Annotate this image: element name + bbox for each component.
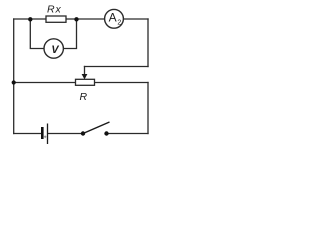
wire: voltmeter branch right	[64, 19, 77, 49]
battery polarity plus mark	[44, 136, 47, 139]
svg-text:2: 2	[117, 19, 121, 26]
wire: middle wire left of rheostat	[14, 82, 76, 84]
wire: bottom wire battery to left rail	[14, 133, 41, 135]
svg-text:R: R	[80, 91, 88, 103]
switch lever	[83, 122, 110, 134]
voltmeter V body	[44, 39, 63, 58]
switch pivot contact dot	[81, 131, 85, 135]
battery positive plate (long thin)	[47, 124, 49, 145]
node: junction dot right of Rx	[74, 17, 78, 21]
ammeter A2 body	[105, 9, 124, 28]
wire: slider riser	[84, 67, 86, 75]
node: junction dot left of Rx	[28, 17, 32, 21]
wire: left rail	[13, 19, 15, 134]
rheostat slider arrowhead	[82, 74, 88, 79]
switch right contact dot	[104, 131, 108, 135]
svg-text:A: A	[109, 10, 117, 24]
wire: bottom wire battery to switch	[48, 133, 83, 135]
wire: bottom wire switch to right rail	[107, 133, 149, 135]
wire: rheostat slider wire	[85, 66, 149, 68]
wire: voltmeter branch left	[30, 19, 44, 49]
wire: right rail lower segment	[147, 83, 149, 134]
wire: middle wire right of rheostat	[95, 82, 149, 84]
resistor Rx body	[46, 16, 66, 22]
svg-text:V: V	[51, 44, 59, 56]
node: junction dot on left rail	[12, 80, 16, 84]
rheostat R body	[76, 79, 95, 85]
battery negative plate (short thick)	[41, 127, 44, 139]
wire: right rail upper segment	[147, 19, 149, 67]
svg-text:Rx: Rx	[47, 3, 62, 15]
wire: top wire	[14, 18, 148, 20]
